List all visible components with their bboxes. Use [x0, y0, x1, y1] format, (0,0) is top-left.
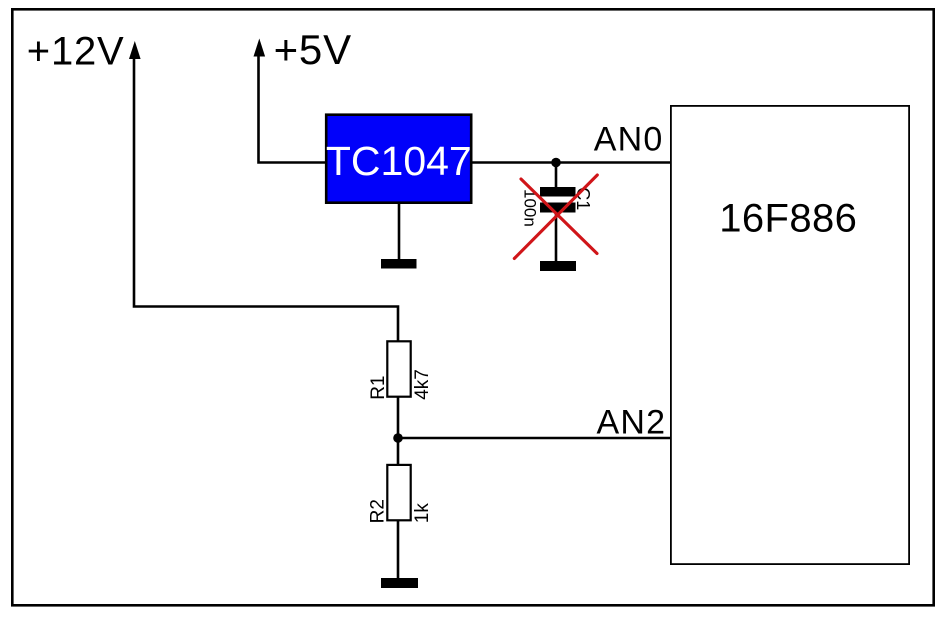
svg-text:TC1047: TC1047: [326, 138, 472, 184]
svg-text:R2: R2: [368, 499, 389, 523]
svg-text:AN2: AN2: [596, 403, 666, 441]
svg-text:AN0: AN0: [594, 121, 664, 159]
svg-text:16F886: 16F886: [719, 197, 857, 241]
svg-text:1k: 1k: [412, 503, 433, 524]
svg-text:R1: R1: [368, 376, 389, 400]
svg-text:+12V: +12V: [27, 30, 125, 74]
svg-text:+5V: +5V: [274, 26, 352, 73]
svg-text:4k7: 4k7: [412, 369, 433, 400]
